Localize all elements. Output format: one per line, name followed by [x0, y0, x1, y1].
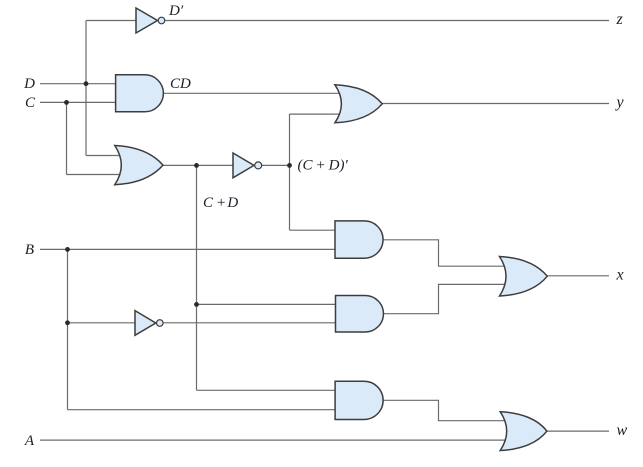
- wire B branch vertical: [67, 249, 69, 409]
- junction B/inverter input: [65, 320, 70, 325]
- wire input C: [40, 101, 116, 103]
- wire output y: [382, 103, 609, 105]
- wire AND x2 top input: [197, 303, 337, 305]
- wire AND w1 to OR w: [383, 400, 506, 420]
- wire B' output: [163, 322, 337, 324]
- wire OR2 bottom input: [290, 113, 343, 115]
- inverter (C+D)': [233, 153, 262, 178]
- wire AND x2 to OR x: [383, 284, 506, 313]
- wire OR1 bottom input: [67, 174, 125, 176]
- wire C branch vertical: [66, 102, 68, 174]
- svg-text:y: y: [615, 94, 625, 111]
- junction node (C+D)': [287, 163, 292, 168]
- wire CD to OR2: [163, 92, 342, 94]
- or-gate C+D: [115, 146, 163, 185]
- wire inverter U2 output: [261, 164, 290, 166]
- wire inverter D' input: [86, 20, 136, 22]
- or-gate x: [500, 257, 548, 297]
- svg-text:(C + D)′: (C + D)′: [298, 158, 349, 174]
- wire AND x1 to OR x: [383, 240, 507, 266]
- and-gate CD: [116, 75, 164, 112]
- wire inverter B' input: [68, 322, 136, 324]
- wire input D: [40, 83, 116, 85]
- wire (C+D)' vertical: [289, 114, 291, 230]
- svg-text:z: z: [616, 11, 624, 28]
- or-gate y: [335, 85, 382, 123]
- svg-text:C + D: C + D: [203, 195, 238, 211]
- wire AND w1 bottom input: [68, 409, 337, 411]
- svg-text:C: C: [25, 95, 36, 111]
- wire output w: [547, 430, 610, 432]
- svg-text:A: A: [24, 433, 35, 449]
- wire AND x1 top input: [290, 229, 337, 231]
- junction node C+D: [194, 163, 199, 168]
- svg-text:CD: CD: [170, 76, 191, 92]
- wire input B: [40, 248, 336, 250]
- wire OR1 top input: [86, 155, 124, 157]
- wire input A: [40, 439, 506, 441]
- svg-text:D: D: [23, 76, 35, 92]
- wire C+D output: [163, 164, 234, 166]
- and-gate x1: [335, 221, 383, 258]
- junction C/vertical: [64, 100, 69, 105]
- svg-text:D′: D′: [168, 3, 184, 19]
- inverter B': [135, 311, 163, 336]
- junction C+D/x2 input: [194, 302, 199, 307]
- svg-text:x: x: [616, 267, 624, 284]
- svg-text:B: B: [25, 242, 34, 258]
- wire C+D vertical: [196, 165, 198, 390]
- svg-text:w: w: [617, 422, 628, 439]
- junction D/vertical: [84, 81, 89, 86]
- and-gate w1: [335, 381, 383, 419]
- or-gate w: [500, 412, 547, 451]
- wire D branch vertical: [85, 21, 87, 156]
- junction B/vertical: [65, 247, 70, 252]
- wire output x: [547, 275, 609, 277]
- wire output z: [164, 20, 609, 22]
- inverter D': [136, 8, 165, 33]
- wire AND w1 top input: [197, 389, 337, 391]
- and-gate x2: [336, 296, 384, 333]
